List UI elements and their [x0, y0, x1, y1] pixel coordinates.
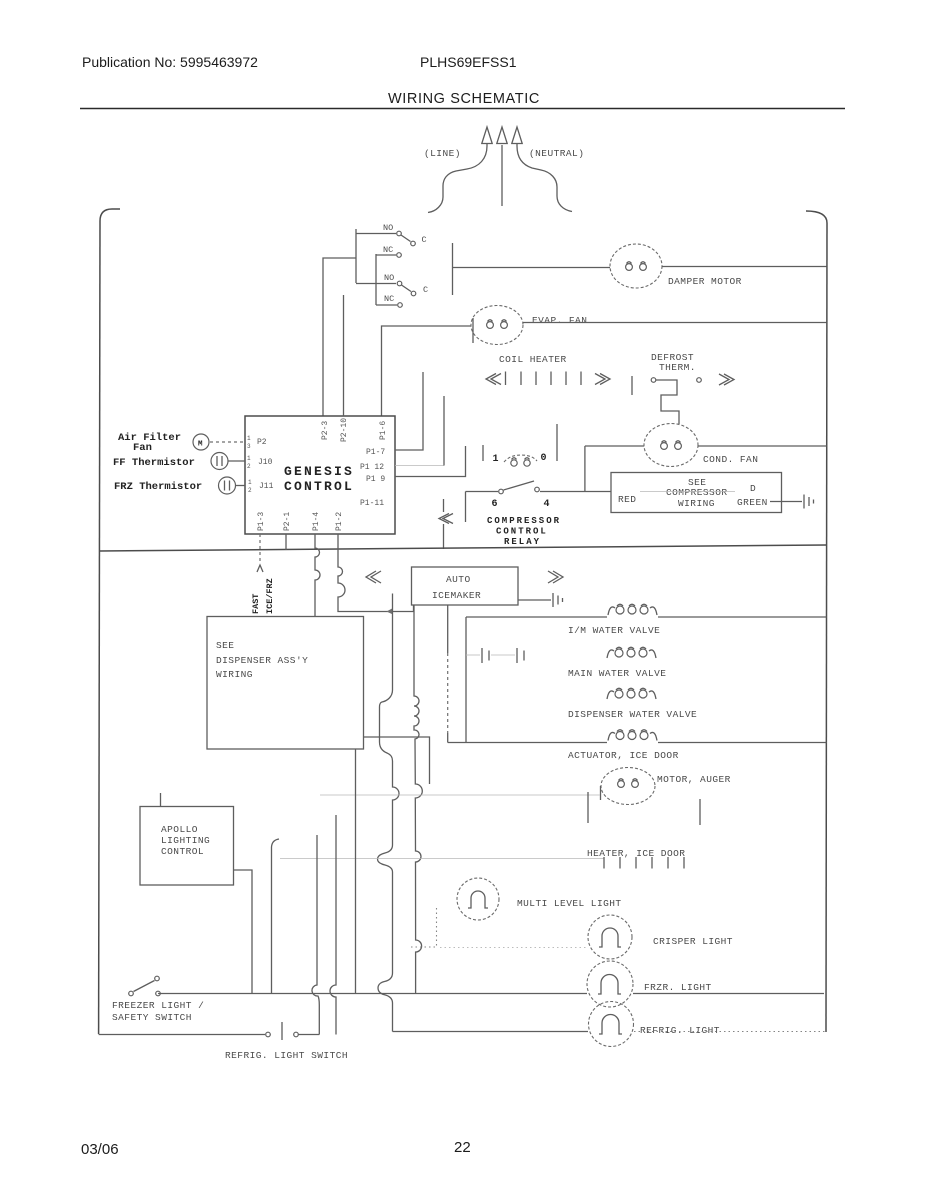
- footer date: [81, 1141, 119, 1158]
- svg-text:LIGHTING: LIGHTING: [161, 835, 210, 846]
- pin label P1-11: [360, 499, 384, 508]
- label damper motor: [668, 276, 742, 287]
- svg-text:C: C: [423, 285, 428, 295]
- svg-text:D: D: [750, 483, 756, 494]
- svg-text:PLHS69EFSS1: PLHS69EFSS1: [420, 54, 517, 70]
- svg-text:SAFETY SWITCH: SAFETY SWITCH: [112, 1012, 192, 1023]
- relay contact switch upper NO/NC: [356, 223, 427, 283]
- pin label P2-3 rotated: [321, 421, 330, 440]
- pin label P1-6 rotated: [379, 421, 388, 440]
- pin label P1-3 rotated: [257, 512, 266, 531]
- cond fan motor M3: [644, 424, 698, 467]
- label motor auger: [657, 774, 731, 785]
- label LINE: [424, 148, 461, 159]
- svg-text:COMPRESSOR: COMPRESSOR: [666, 487, 728, 498]
- svg-text:MAIN WATER VALVE: MAIN WATER VALVE: [568, 668, 666, 679]
- label heater ice door: [587, 848, 685, 859]
- svg-text:P2-10: P2-10: [340, 418, 349, 442]
- svg-text:1: 1: [493, 454, 499, 465]
- svg-text:P1 12: P1 12: [360, 463, 384, 472]
- svg-text:REFRIG. LIGHT: REFRIG. LIGHT: [640, 1025, 720, 1036]
- svg-text:NC: NC: [384, 294, 394, 304]
- svg-text:REFRIG. LIGHT SWITCH: REFRIG. LIGHT SWITCH: [225, 1050, 348, 1061]
- solenoid actuator ice door L4: [608, 730, 657, 741]
- wire freezer light row: [158, 993, 587, 995]
- wire branch x313 refrig switch riser: [312, 835, 319, 1035]
- svg-text:P1-2: P1-2: [335, 512, 344, 531]
- label FF thermistor: [113, 457, 195, 469]
- svg-text:APOLLO: APOLLO: [161, 824, 198, 835]
- label NEUTRAL: [529, 148, 584, 159]
- svg-text:Fan: Fan: [133, 442, 152, 454]
- label evap fan: [532, 315, 587, 326]
- label multi level light: [517, 898, 622, 909]
- svg-text:P1 9: P1 9: [366, 475, 385, 484]
- FRZ thermistor RT2: [219, 477, 236, 494]
- pin label P1-9: [366, 475, 385, 484]
- wire multi level light dashed drop: [410, 908, 437, 947]
- wire relay branch stub: [465, 492, 467, 523]
- wire refrig light row: [393, 1031, 589, 1033]
- svg-text:P1-11: P1-11: [360, 499, 384, 508]
- node P1-11 chevron: [439, 514, 453, 524]
- wire evap fan to right bus: [523, 322, 827, 324]
- svg-text:THERM.: THERM.: [659, 362, 696, 373]
- wire FF therm to J10: [228, 460, 245, 462]
- label genesis control: [284, 464, 354, 494]
- wire pin P1-4 drop with humps: [315, 534, 320, 616]
- svg-text:DISPENSER WATER VALVE: DISPENSER WATER VALVE: [568, 709, 697, 720]
- svg-text:SEE: SEE: [216, 640, 234, 651]
- label crisper light: [653, 936, 733, 947]
- svg-text:DISPENSER ASS'Y: DISPENSER ASS'Y: [216, 655, 308, 666]
- label dispenser water valve: [568, 709, 697, 720]
- FF thermistor RT1: [211, 453, 228, 470]
- wire pin P1-2 drop with humps to icemaker: [338, 534, 414, 612]
- label coil heater: [499, 354, 567, 365]
- svg-text:4: 4: [544, 499, 550, 510]
- svg-text:WIRING: WIRING: [678, 498, 715, 509]
- wire branch x336: [330, 815, 336, 1035]
- refrig light LP4: [589, 1002, 634, 1047]
- wire inside compressor box: [640, 491, 735, 493]
- relay contact switch lower NO/NC: [356, 254, 428, 307]
- svg-text:0: 0: [541, 453, 547, 464]
- wire branch x271: [272, 839, 280, 993]
- wire crisper dotted feed: [440, 947, 588, 949]
- pin label P1-2 rotated: [335, 512, 344, 531]
- label see compressor wiring: [666, 477, 728, 509]
- svg-text:J11: J11: [259, 482, 274, 491]
- svg-text:FRZR. LIGHT: FRZR. LIGHT: [644, 982, 712, 993]
- wire below chevron: [443, 499, 445, 549]
- svg-text:6: 6: [492, 499, 498, 510]
- node dispenser chevron: [366, 571, 381, 583]
- svg-text:COND. FAN: COND. FAN: [703, 454, 758, 465]
- damper motor M1: [610, 244, 662, 288]
- air filter fan motor M: [193, 434, 209, 450]
- header model number: [420, 54, 517, 70]
- wire LINE drop curve: [428, 146, 487, 213]
- wire pin P2-1 drop: [285, 534, 287, 550]
- svg-text:J10: J10: [258, 458, 273, 467]
- crisper light LP2: [588, 915, 632, 959]
- svg-text:Publication No: 5995463972: Publication No: 5995463972: [82, 54, 258, 70]
- label refrig light: [640, 1025, 720, 1036]
- label freezer light safety switch: [112, 1000, 204, 1023]
- label see dispenser assy wiring: [216, 640, 308, 680]
- wire main neutral run: [100, 545, 827, 551]
- svg-text:P1-6: P1-6: [379, 421, 388, 440]
- label apollo lighting control: [161, 824, 210, 857]
- wire auger row faint: [320, 794, 600, 796]
- svg-text:CONTROL: CONTROL: [161, 846, 204, 857]
- svg-text:NO: NO: [384, 273, 394, 283]
- svg-text:1: 1: [247, 435, 251, 442]
- power entry arrow LINE: [482, 127, 492, 146]
- wire damper motor row: [453, 267, 611, 269]
- solenoid I/M water valve L1: [608, 604, 657, 615]
- svg-text:FRZ Thermistor: FRZ Thermistor: [114, 481, 202, 493]
- defrost thermostat: [632, 374, 734, 424]
- node icemaker chevron right: [548, 571, 563, 583]
- svg-text:EVAP. FAN: EVAP. FAN: [532, 315, 587, 326]
- svg-text:(LINE): (LINE): [424, 148, 461, 159]
- svg-text:MOTOR, AUGER: MOTOR, AUGER: [657, 774, 731, 785]
- defrost timer cam: [504, 455, 537, 466]
- water valve box left: [465, 617, 467, 743]
- wire icemaker ground stub: [518, 599, 551, 601]
- header rule: [80, 108, 845, 110]
- footer page number: [454, 1139, 471, 1156]
- svg-text:M: M: [198, 441, 203, 449]
- wire cond fan to right bus: [698, 445, 827, 447]
- wire right bus: [826, 223, 827, 1032]
- wire pin P1-3 dashed drop: [257, 534, 263, 572]
- svg-text:ACTUATOR, ICE DOOR: ACTUATOR, ICE DOOR: [568, 750, 679, 761]
- wire fan to P2 dashed: [210, 441, 245, 443]
- wire green to ground: [770, 501, 802, 503]
- svg-text:C: C: [422, 235, 427, 245]
- label D: [750, 483, 756, 494]
- svg-text:WIRING SCHEMATIC: WIRING SCHEMATIC: [388, 91, 540, 107]
- pin label P1-7: [366, 448, 385, 457]
- wire L2 icemaker drop with coil humps: [414, 605, 422, 993]
- svg-text:NC: NC: [383, 245, 393, 255]
- svg-text:CONTROL: CONTROL: [284, 479, 354, 494]
- label auto icemaker: [432, 574, 481, 601]
- wire FRZ therm to J11: [236, 485, 245, 487]
- wire left bus: [99, 221, 100, 1034]
- coil heater element: [486, 372, 610, 386]
- svg-text:DAMPER MOTOR: DAMPER MOTOR: [668, 276, 742, 287]
- dispenser assy box: [207, 617, 364, 750]
- svg-text:FF Thermistor: FF Thermistor: [113, 457, 195, 469]
- svg-text:RED: RED: [618, 494, 636, 505]
- pin label P1-12: [360, 463, 384, 472]
- svg-text:P2: P2: [257, 438, 267, 447]
- svg-text:CRISPER LIGHT: CRISPER LIGHT: [653, 936, 733, 947]
- multi level light LP1: [457, 878, 499, 920]
- wire auger right stub: [699, 799, 701, 825]
- solenoid main water valve L2: [607, 647, 656, 658]
- svg-text:3: 3: [247, 443, 251, 450]
- wire pin P2-10 stub: [343, 295, 345, 416]
- wire common C bus vertical: [452, 243, 454, 295]
- svg-text:MULTI LEVEL LIGHT: MULTI LEVEL LIGHT: [517, 898, 622, 909]
- compressor control relay contacts 6-4: [466, 481, 612, 510]
- heater ice door element: [280, 857, 684, 869]
- svg-text:WIRING: WIRING: [216, 669, 253, 680]
- evap fan motor M2: [471, 306, 523, 345]
- solenoid dispenser water valve L3: [607, 688, 656, 699]
- defrost timer terminal 1: [483, 445, 499, 465]
- icemaker internal contacts: [466, 648, 524, 663]
- wire refrig light dotted to bus: [634, 1031, 826, 1033]
- svg-text:P1-4: P1-4: [312, 512, 321, 531]
- svg-text:GREEN: GREEN: [737, 497, 768, 508]
- label I/M water valve: [568, 625, 660, 636]
- label actuator ice door: [568, 750, 679, 761]
- wire middle ground drop: [501, 145, 503, 206]
- svg-text:RELAY: RELAY: [504, 537, 541, 547]
- svg-text:1: 1: [248, 479, 252, 486]
- svg-text:03/06: 03/06: [81, 1141, 119, 1158]
- node icemaker wire arrow: [387, 608, 394, 615]
- pin J11: [248, 479, 274, 494]
- svg-text:P2-1: P2-1: [283, 512, 292, 531]
- svg-text:2: 2: [247, 463, 251, 470]
- svg-text:ICE/FRZ: ICE/FRZ: [265, 578, 275, 614]
- ground icemaker: [553, 593, 563, 607]
- svg-text:P1-7: P1-7: [366, 448, 385, 457]
- svg-text:I/M WATER VALVE: I/M WATER VALVE: [568, 625, 660, 636]
- pin label P1-4 rotated: [312, 512, 321, 531]
- svg-text:FAST: FAST: [251, 594, 261, 614]
- label FRZ thermistor: [114, 481, 202, 493]
- label fast ice/frz rotated: [251, 578, 275, 614]
- genesis control board U1: [245, 416, 395, 534]
- wire dispenser box right branch: [364, 737, 430, 784]
- svg-text:FREEZER LIGHT /: FREEZER LIGHT /: [112, 1000, 204, 1011]
- svg-text:NO: NO: [383, 223, 393, 233]
- frzr light LP3: [587, 961, 633, 1007]
- svg-text:P2-3: P2-3: [321, 421, 330, 440]
- wire evap fan row left: [382, 326, 472, 416]
- wire P1-12: [395, 396, 444, 466]
- label RED: [618, 494, 636, 505]
- label frzr light: [644, 982, 712, 993]
- wire auger left stub: [587, 792, 589, 823]
- pin label P2-1 rotated: [283, 512, 292, 531]
- wire cond fan row: [585, 445, 644, 447]
- wire cond fan feed vertical: [584, 446, 586, 492]
- apollo lighting control box: [140, 807, 234, 886]
- wire branch x355 from dispenser: [355, 749, 357, 993]
- svg-text:(NEUTRAL): (NEUTRAL): [529, 148, 584, 159]
- node top-right corner bracket: [806, 211, 827, 223]
- svg-text:22: 22: [454, 1139, 471, 1156]
- svg-text:AUTO: AUTO: [446, 574, 471, 585]
- wire damper to right bus: [662, 266, 827, 268]
- pin J10: [247, 455, 273, 470]
- wire L1 drop with detour: [378, 594, 400, 1032]
- svg-text:COMPRESSOR: COMPRESSOR: [487, 516, 561, 526]
- label air filter fan: [118, 432, 181, 454]
- svg-text:ICEMAKER: ICEMAKER: [432, 590, 481, 601]
- label GREEN: [737, 497, 768, 508]
- svg-text:GENESIS: GENESIS: [284, 464, 354, 479]
- label refrig light switch: [225, 1050, 348, 1061]
- wire apollo to light bus: [234, 870, 253, 993]
- wire icemaker left edge drop: [413, 605, 415, 612]
- svg-text:CONTROL: CONTROL: [496, 527, 548, 537]
- svg-text:COIL HEATER: COIL HEATER: [499, 354, 567, 365]
- wire P1-7: [395, 372, 423, 450]
- refrig light switch S2: [99, 1022, 320, 1040]
- label defrost therm: [651, 352, 696, 373]
- label cond fan: [703, 454, 758, 465]
- water valve box bottom: [448, 742, 827, 744]
- wire frzr light to right bus: [633, 993, 824, 995]
- wire neutral drop curve: [517, 146, 572, 212]
- svg-text:2: 2: [248, 487, 252, 494]
- ground compressor: [804, 495, 814, 509]
- pin P2: [247, 435, 267, 450]
- water valve box top: [466, 616, 827, 618]
- power entry arrow middle: [497, 127, 507, 144]
- defrost timer terminal 0: [541, 424, 558, 464]
- auto icemaker box: [412, 567, 519, 605]
- header publication number: [82, 54, 258, 70]
- wire icemaker dashed drop: [447, 605, 449, 743]
- wire P1-9: [395, 446, 466, 477]
- pin label P2-10 rotated: [340, 418, 349, 442]
- wire switch feed left corner: [323, 258, 356, 416]
- node top-left corner bracket: [100, 209, 120, 221]
- power entry arrow NEUTRAL: [512, 127, 522, 146]
- freezer light safety switch S1: [129, 976, 161, 996]
- wire apollo top stub: [160, 793, 162, 807]
- svg-text:1: 1: [247, 455, 251, 462]
- header title WIRING SCHEMATIC: [388, 91, 540, 107]
- label compressor control relay: [487, 516, 561, 547]
- label main water valve: [568, 668, 666, 679]
- see compressor wiring box: [611, 473, 782, 513]
- motor auger M4: [601, 768, 656, 805]
- svg-text:P1-3: P1-3: [257, 512, 266, 531]
